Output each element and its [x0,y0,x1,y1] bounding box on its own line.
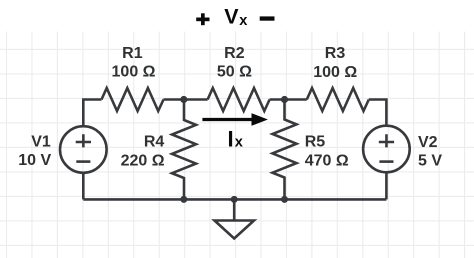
svg-text:100 Ω: 100 Ω [112,64,156,81]
current arrow Ix [202,113,268,126]
svg-text:100 Ω: 100 Ω [313,64,357,81]
svg-text:R1: R1 [122,45,143,62]
label R2 50 Ω [217,45,252,81]
node dot bottom-right junction [281,196,288,203]
svg-text:x: x [239,13,248,29]
resistor R5 [273,100,297,200]
label R3 100 Ω [313,45,357,81]
node dot bottom-center junction [231,196,238,203]
svg-text:x: x [235,135,244,151]
label R5 470 Ω [305,133,349,169]
bottom wire [83,198,386,201]
svg-text:R5: R5 [305,133,326,150]
svg-text:50 Ω: 50 Ω [217,64,252,81]
annotation + (plus of Vx) [196,13,209,25]
label V1 10 V [18,133,51,169]
svg-text:R2: R2 [224,45,245,62]
wire R1 to R2 [164,98,208,101]
svg-text:10 V: 10 V [18,152,51,169]
ground [215,199,255,238]
node dot bottom-left junction [180,196,187,203]
wire R3 to V2 top [369,100,387,127]
voltage source V2 [363,126,410,173]
annotation label Ix [228,127,244,152]
resistor R3 [307,88,369,111]
svg-text:220 Ω: 220 Ω [121,152,165,169]
wire V1 top to R1 [83,100,101,127]
voltage source V1 [60,126,107,173]
svg-text:5 V: 5 V [418,153,442,170]
svg-text:V1: V1 [31,133,51,150]
svg-text:I: I [228,127,234,152]
wire V2 bottom [385,172,388,199]
resistor R4 [172,100,196,200]
label R1 100 Ω [112,45,156,81]
wire V1 bottom [82,173,85,200]
node dot top-right junction [281,96,288,103]
node dot top-left junction [180,96,187,103]
svg-text:470 Ω: 470 Ω [305,153,349,170]
wire R2 to R3 [270,98,307,101]
svg-text:R4: R4 [144,133,165,150]
svg-text:V: V [224,5,239,29]
annotation label Vx [224,5,248,30]
annotation - (minus of Vx) [260,16,275,20]
svg-text:V2: V2 [418,134,438,151]
svg-text:R3: R3 [325,45,346,62]
label R4 220 Ω [121,133,165,169]
resistor R2 [208,88,270,111]
label V2 5 V [418,134,442,170]
resistor R1 [102,88,164,111]
